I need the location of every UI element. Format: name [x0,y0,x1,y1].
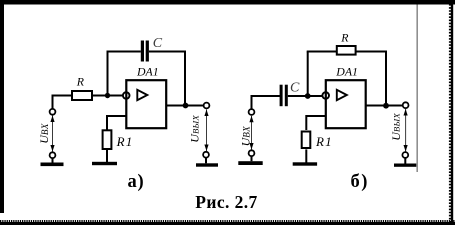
wire: top left segment to C [107,51,141,53]
wire: stub to output ground b [404,158,406,164]
op-amp inverting input circle b [322,92,329,99]
op-amp DA1 body b [326,80,366,128]
ground under output b [394,164,416,167]
wire: output b [366,105,403,107]
ground under input a [41,163,64,167]
capacitor C b [280,85,288,107]
wire: feedback riser b [307,52,309,97]
wire: output a [166,105,204,107]
wire: feedback riser [107,52,109,96]
svg-text:R1: R1 [116,134,134,149]
node: output junction dot a [183,103,189,109]
wire: input riser to R level [53,96,72,109]
gray divider line [416,5,418,173]
wire: stub to input ground a [52,158,54,163]
wire: feedback right riser [184,52,186,106]
ground under output a [196,163,218,166]
output terminal circle a [204,103,210,109]
svg-text:UВЫХ: UВЫХ [188,115,202,143]
wire: stub to output ground a [205,158,207,164]
node: input junction dot [105,93,110,98]
svg-text:б): б) [351,172,369,192]
output bottom terminal circle b [402,152,408,158]
input bottom terminal circle a [50,152,56,158]
svg-text:DA1: DA1 [136,65,159,79]
svg-text:UВЫХ: UВЫХ [389,113,403,141]
op-amp triangle [137,90,147,100]
resistor R b [337,46,356,55]
svg-text:C: C [290,80,300,95]
wire: top left segment b [307,51,336,53]
resistor R [72,91,92,100]
wire: C to op-amp b [288,95,322,97]
wire: lower input to R1 b [306,116,326,130]
wire: top right segment from C [149,51,186,53]
svg-text:DA1: DA1 [335,65,358,79]
node: output junction dot b [383,103,389,109]
output bottom terminal circle a [203,152,209,158]
node: input junction dot b [305,93,311,99]
Uvx arrow a [50,116,54,152]
ground under input b [238,161,262,165]
wire: stub to input ground b [251,156,253,161]
wire: top right segment b [356,51,387,53]
wire: feedback right riser b [385,52,387,106]
svg-text:R1: R1 [315,134,333,149]
input terminal circle a [50,109,56,115]
op-amp DA1 inverting input circle [123,92,130,99]
resistor R1 b [302,132,311,149]
Uvx arrow b [249,116,253,150]
svg-text:R: R [76,75,85,89]
Uvyx arrow a [204,110,208,152]
wire: R1 to ground b [305,149,307,162]
ground under R1 b [293,162,317,165]
op-amp triangle b [337,90,347,100]
Uvyx arrow b [404,109,408,152]
svg-text:UВХ: UВХ [37,123,51,144]
input bottom terminal circle b [249,150,255,156]
wire: lower input to R1 [107,116,126,130]
resistor R1 [103,130,112,149]
output terminal circle b [403,102,409,108]
wire: input riser b [252,96,281,109]
svg-text:Рис. 2.7: Рис. 2.7 [195,192,257,212]
capacitor C [141,41,149,62]
svg-text:C: C [153,36,163,51]
svg-text:UВХ: UВХ [239,126,253,147]
wire: R to op-amp input [93,95,122,97]
svg-text:R: R [340,30,349,44]
wire: R1 to ground [106,150,108,163]
input terminal circle b [249,109,255,115]
op-amp DA1 body [126,80,166,128]
ground under R1 [92,162,117,165]
svg-text:а): а) [128,172,145,192]
